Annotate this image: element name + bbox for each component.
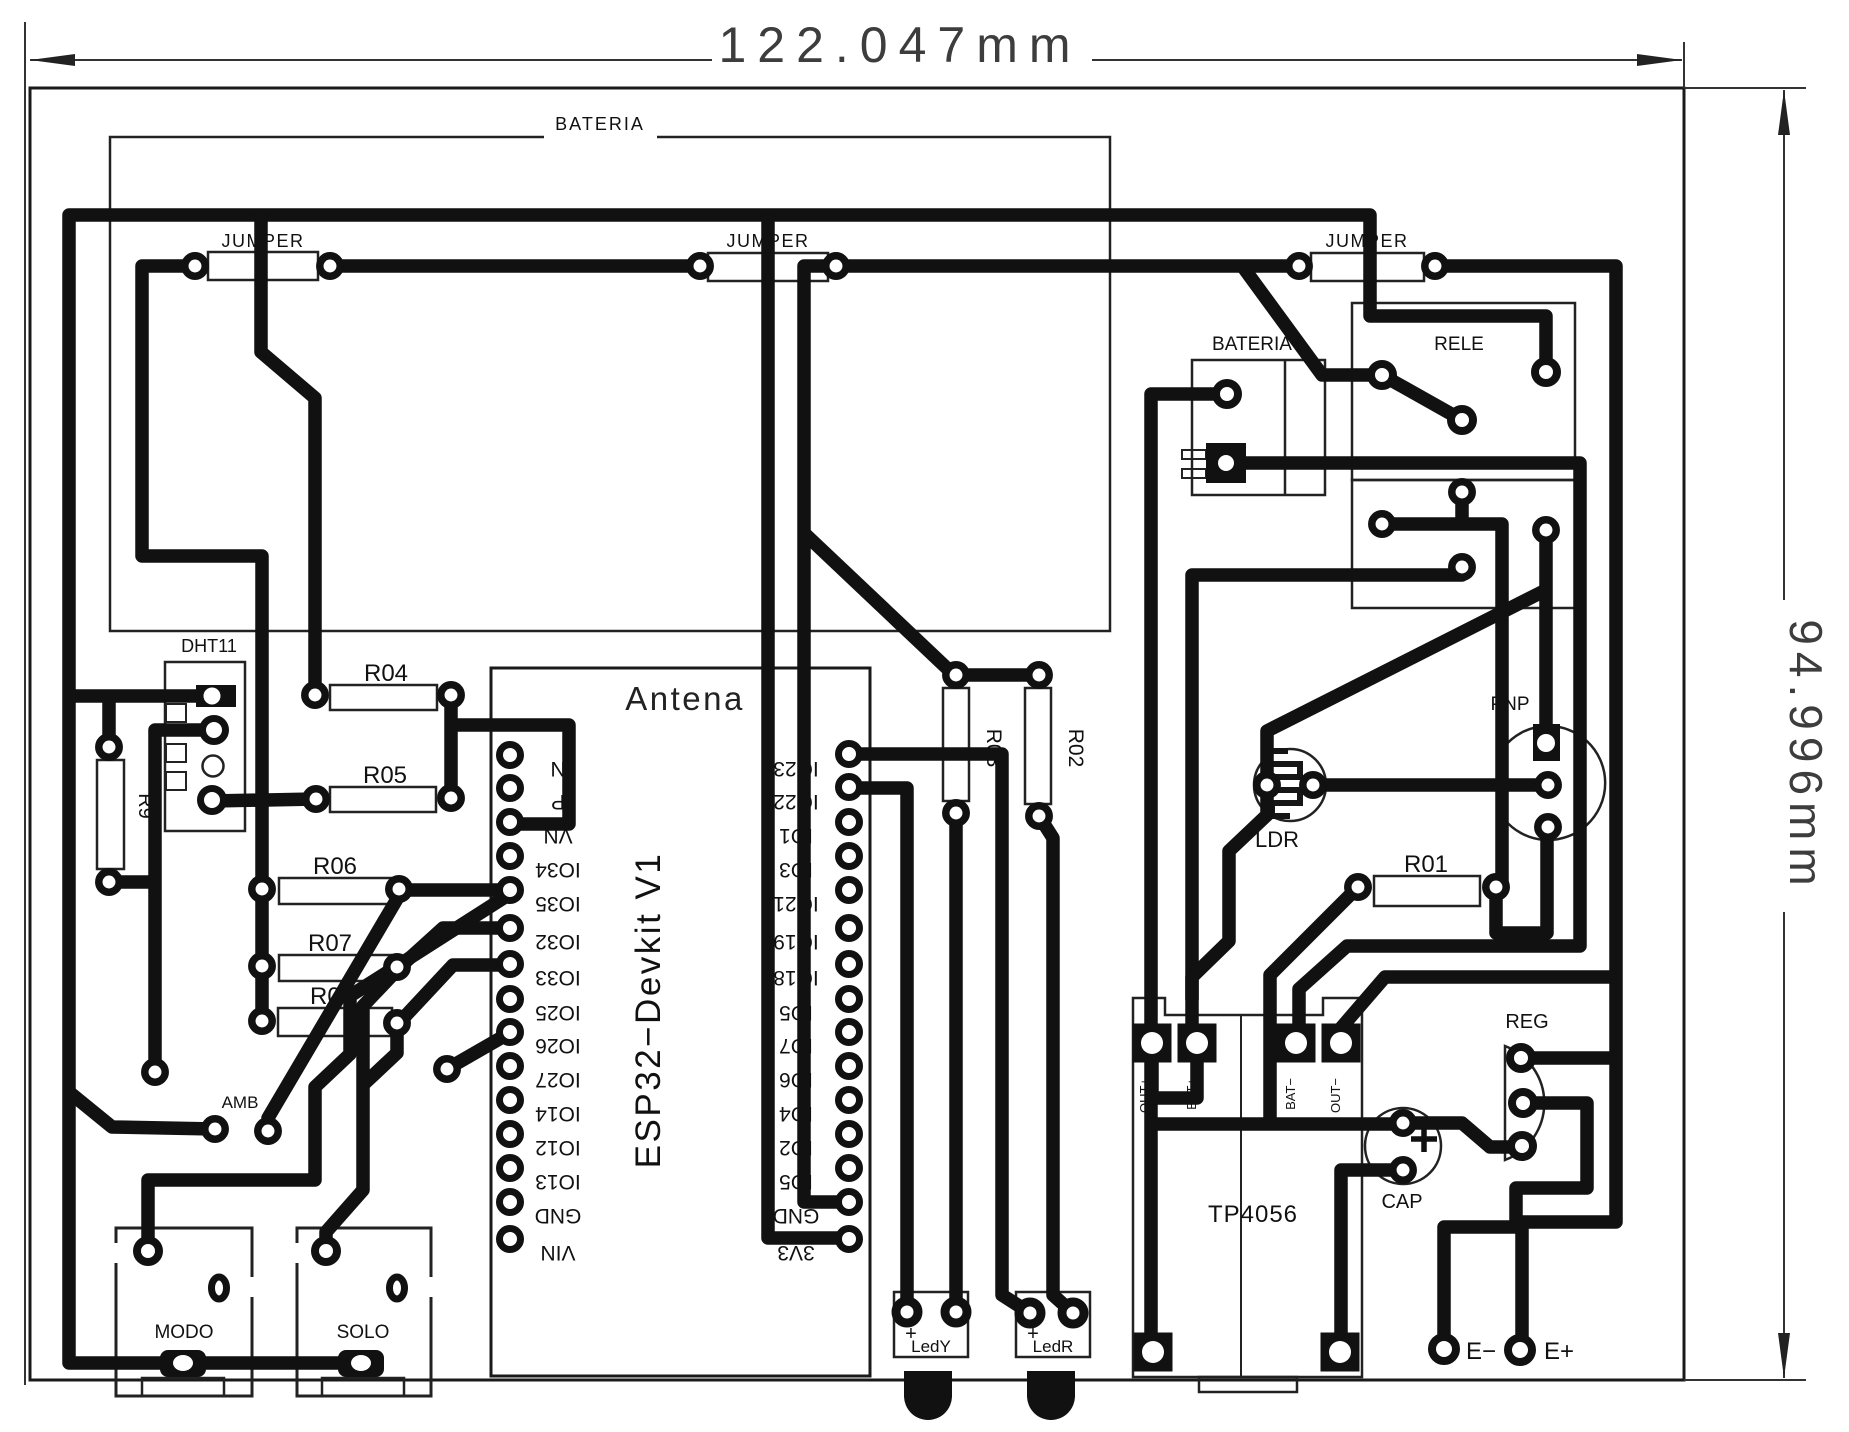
capacitor CAP body circle [1365, 1108, 1441, 1184]
RELE pad B [1451, 409, 1473, 431]
LED LedY body [894, 1292, 968, 1357]
transistor PNP body circle [1504, 726, 1605, 840]
wire main bus: bottom-left, left, top, to RELE pad C [69, 215, 1546, 1363]
svg-text:IO34: IO34 [535, 858, 581, 881]
svg-text:R06: R06 [313, 853, 357, 880]
resistor R07 body [279, 955, 391, 981]
svg-text:REG: REG [1505, 1011, 1548, 1033]
resistor R02 pad top [1029, 665, 1049, 685]
ESP32 right pin pad 14 [839, 1192, 860, 1213]
wire left bus diagonal to AMB left pad [69, 1092, 215, 1129]
ESP32 right pin pad 1 [839, 744, 860, 765]
wire R06 right pad diagonal to AMB right pad [268, 899, 397, 1131]
connector BATERIA (right) body [1192, 360, 1325, 495]
wire TP4056 OUT+/BAT+ U-link [1152, 1058, 1197, 1098]
wire BATERIA right pad to TP4056 OUT+ pad [1151, 394, 1227, 1352]
svg-text:AMB: AMB [222, 1093, 259, 1112]
ESP32 right pin pad 10 [839, 1056, 860, 1077]
svg-text:E+: E+ [1544, 1338, 1574, 1365]
svg-text:BATERIA: BATERIA [1212, 334, 1292, 355]
resistor R01 body [1374, 876, 1480, 906]
resistor R08 pad left [252, 1011, 272, 1031]
ESP32 left pin pad 2 [500, 778, 521, 799]
svg-text:122.047mm: 122.047mm [718, 17, 1081, 73]
svg-text:CAP: CAP [1381, 1191, 1422, 1213]
ESP32 left pin pad 3 [500, 812, 521, 833]
jumper J2 body [708, 253, 828, 281]
CAP plus sign [1411, 1126, 1437, 1152]
ESP32 right pin pad 8 [839, 989, 860, 1010]
SOLO top pad [315, 1240, 337, 1262]
svg-text:IO14: IO14 [535, 1102, 581, 1125]
wire CAP bottom pad to TP4056 bottom-right pad [1341, 1170, 1403, 1352]
ESP32 left pin pad 4 [500, 846, 521, 867]
BATERIA right pad [1216, 383, 1238, 405]
ESP32 left pin pad 13 [500, 1158, 521, 1179]
DHT11 index circle [203, 756, 224, 777]
jumper J2 pad 1 [690, 256, 710, 276]
svg-text:LDR: LDR [1255, 827, 1299, 852]
svg-text:R07: R07 [308, 930, 352, 957]
ESP32 left pin pad 10 [500, 1056, 521, 1077]
MODO oval pad [212, 1277, 227, 1299]
wire J1 right pad to J2 left pad [330, 259, 700, 273]
sensor DHT11 body [165, 662, 245, 831]
wire branch from GND vertical diagonal to R03 top pad [804, 533, 952, 673]
DHT11 pad 2 [203, 719, 226, 742]
LedY pad left [896, 1301, 918, 1323]
resistor R07 pad left [252, 956, 272, 976]
LedR pad left [1019, 1302, 1041, 1324]
PNP bottom pad [1538, 817, 1558, 837]
LedR pad right [1062, 1302, 1084, 1324]
RELE contact pad 3 [1452, 557, 1472, 577]
wire via pad diagonal to ESP32 IO26 [447, 1031, 513, 1069]
svg-text:LedY: LedY [911, 1337, 951, 1356]
jumper J1 pad 2 [320, 256, 340, 276]
resistor R03 pad top [946, 665, 966, 685]
dimension extension line right-top [1684, 87, 1806, 89]
jumper J3 pad 2 [1425, 256, 1445, 276]
wire REG middle pad to E- pad [1444, 1103, 1587, 1349]
svg-text:DHT11: DHT11 [181, 636, 237, 656]
svg-text:R01: R01 [1404, 851, 1448, 878]
RELE pad C [1535, 361, 1557, 383]
TP4056 pad OUT- [1322, 1024, 1361, 1063]
REG pad 1 [1510, 1047, 1532, 1069]
jumper J3 body [1311, 253, 1424, 281]
wire R04/R05 net wrap to ESP32 VN pin [451, 725, 569, 824]
module TP4056 outline [1133, 998, 1362, 1377]
button MODO body [116, 1228, 252, 1396]
svg-text:IO35: IO35 [535, 892, 581, 915]
dimension extension line top-right [1683, 42, 1685, 88]
svg-text:R05: R05 [363, 762, 407, 789]
resistor R01 pad right [1486, 877, 1506, 897]
wire stub to R9 top pad [102, 696, 116, 747]
pad E+ [1508, 1338, 1532, 1362]
relay RELE body [1352, 303, 1575, 480]
wire RELE contact stub [1455, 492, 1469, 524]
resistor R9 pad top [99, 737, 119, 757]
wire PNP bottom pad to R01 right pad [1496, 827, 1547, 933]
svg-text:IO19: IO19 [773, 930, 819, 953]
wire IO32 through R07 right pad to SOLO button [326, 928, 513, 1251]
TP4056 pad BAT+ [1178, 1024, 1217, 1063]
svg-text:IO27: IO27 [535, 1068, 581, 1091]
ESP32 right pin pad 2 [839, 777, 860, 798]
TP4056 bottom tab [1199, 1377, 1297, 1392]
RELE pad A [1371, 364, 1393, 386]
ESP32 left pin pad 9 [500, 1022, 521, 1043]
svg-text:IO32: IO32 [535, 930, 581, 953]
svg-text:IO26: IO26 [535, 1034, 581, 1057]
resistor R06 pad right [389, 879, 409, 899]
wire DHT11 pin3 to R05 left pad [212, 799, 316, 801]
jumper J2 pad 2 [826, 256, 846, 276]
svg-text:E−: E− [1466, 1338, 1496, 1365]
PNP top square pad [1533, 724, 1560, 761]
svg-text:IO23: IO23 [773, 757, 819, 780]
wire J3 right pad elbow down right side to E+ pad [1435, 266, 1616, 1350]
LedY dome [904, 1371, 952, 1420]
wire J2 right pad elbow down to ESP32 GND pad [804, 266, 849, 1202]
svg-text:TP4056: TP4056 [1208, 1201, 1298, 1228]
resistor R04 body [330, 685, 437, 710]
via pad to IO26 [437, 1059, 457, 1079]
wire R03 bottom pad to LedY right pad [949, 813, 963, 1312]
jumper J1 body [208, 252, 318, 280]
resistor R02 body [1025, 688, 1051, 804]
resistor R08 pad right [387, 1013, 407, 1033]
wire R02 bottom pad to LedR right pad [1039, 816, 1073, 1313]
svg-text:SOLO: SOLO [337, 1322, 390, 1343]
LDR body circle [1254, 749, 1326, 821]
ESP32 right pin pad 3 [839, 812, 860, 833]
resistor R05 pad left [306, 789, 326, 809]
jumper J3 pad 1 [1289, 256, 1309, 276]
svg-text:R02: R02 [1064, 729, 1087, 768]
resistor R08 body [278, 1008, 392, 1036]
svg-text:R04: R04 [364, 660, 408, 687]
wire bus branch diagonal to RELE pad A [1243, 267, 1382, 375]
wire IO35 diagonal down to MODO button [148, 892, 513, 1251]
resistor R07 pad right [387, 957, 407, 977]
right dimension line 94.996mm [1783, 90, 1785, 600]
wire ESP32 IO23 to LedR left pad [849, 754, 1030, 1313]
resistor R06 body [279, 878, 391, 904]
SOLO bottom tab [322, 1378, 404, 1396]
svg-text:MODO: MODO [154, 1322, 213, 1343]
wire R01 left pad down to TP4056 horizontal [1270, 887, 1358, 1124]
SOLO bottom pad [338, 1350, 384, 1377]
resistor R05 body [330, 787, 436, 812]
svg-text:RELE: RELE [1434, 334, 1484, 355]
REG pad 2 [1512, 1092, 1534, 1114]
ESP32 left pin pad 6 [500, 918, 521, 939]
via pad below R9 [145, 1062, 165, 1082]
TP4056 inner divider [1240, 1015, 1242, 1377]
LED LedR body [1016, 1292, 1090, 1357]
svg-text:IO21: IO21 [773, 892, 819, 915]
ESP32 left pin pad 1 [500, 745, 521, 766]
MODO top pad [137, 1240, 159, 1262]
ESP32 left pin pad 7 [500, 954, 521, 975]
svg-text:IO12: IO12 [535, 1136, 581, 1159]
SOLO oval pad [390, 1277, 405, 1299]
wire RELE contact pad to TP4056 BAT+ pad [1192, 567, 1462, 1043]
BATERIA right square pad [1206, 443, 1246, 483]
wire R08 right pad diagonal to ESP32 IO33 [397, 965, 513, 1025]
TP4056 pad OUT+ [1133, 1024, 1172, 1063]
svg-text:IO13: IO13 [535, 1170, 581, 1193]
svg-text:Antena: Antena [625, 680, 745, 717]
RELE contact pad 4 [1536, 520, 1556, 540]
RELE contact pad 2 [1452, 482, 1472, 502]
PNP middle pad [1538, 775, 1558, 795]
ESP32 right pin pad 4 [839, 846, 860, 867]
wire LDR left pad up diagonal to PNP-top vertical [1267, 590, 1546, 785]
wire R03 top pad to R02 top pad [956, 668, 1039, 682]
LDR pad left [1257, 775, 1277, 795]
resistor R05 pad right [441, 788, 461, 808]
ESP32 right pin pad 15 [839, 1229, 860, 1250]
resistor R06 pad left [252, 879, 272, 899]
BATERIA right connector tabs [1182, 450, 1206, 459]
wire ESP32 IO22 to LedY left pad [849, 788, 907, 1312]
module ESP32-Devkit V1 outline [491, 668, 870, 1376]
LDR pad right [1303, 775, 1323, 795]
wire CAP top pad to REG bottom pad [1403, 1123, 1522, 1147]
ESP32 right pin pad 6 [839, 918, 860, 939]
resistor R9 pad bottom [99, 872, 119, 892]
wire left bus to DHT11 pin1 [69, 689, 212, 703]
resistor R03 body [943, 688, 969, 801]
TP4056 pad BAT- [1277, 1024, 1316, 1063]
TP4056 bottom-right pad [1321, 1333, 1360, 1372]
ESP32 right pin pad 5 [839, 880, 860, 901]
wire TP4056 left column to CAP top pad horizontal [1152, 1117, 1403, 1131]
wire R08 right pad stub joining SOLO trace [365, 1033, 397, 1083]
jumper J1 pad 1 [185, 256, 205, 276]
DHT11 pad 3 [201, 789, 224, 812]
wire RELE pad A to pad B diagonal [1382, 375, 1462, 420]
wire top bus branch through J2 down to ESP32 3V3 pad [768, 215, 849, 1238]
ESP32 right pin pad 7 [839, 954, 860, 975]
wire jumper J1 left pad elbow down through R06/R07/R08 left pads [142, 266, 262, 1021]
BATERIA region box [110, 137, 1110, 631]
AMB pad left [205, 1119, 225, 1139]
LedY pad right [945, 1301, 967, 1323]
DHT11 pad 1 square [196, 685, 236, 707]
wire branch to REG top pad [1520, 1051, 1616, 1065]
top dimension line 122.047mm [30, 59, 712, 61]
resistor R9 body [97, 760, 124, 869]
dimension extension line right-bottom [1684, 1379, 1806, 1381]
CAP pad top [1393, 1113, 1413, 1133]
svg-text:94.996mm: 94.996mm [1780, 619, 1832, 892]
wire branch to TP4056 OUT- pad [1341, 977, 1616, 1043]
wire top bus branch through J1 to R04 left pad [261, 215, 315, 695]
relay lower contact box [1352, 480, 1575, 608]
pad E- [1432, 1337, 1456, 1361]
wire BATERIA square pad to TP4056 BAT- pad [1226, 463, 1580, 1043]
wire J2 right pad to J3 left pad [836, 259, 1299, 273]
RELE contact pad 1 [1372, 514, 1392, 534]
wire RELE contact pads to R01 right pad vertical [1382, 524, 1502, 887]
resistor R04 pad right [441, 685, 461, 705]
resistor R03 pad bottom [946, 803, 966, 823]
dimension extension line left [24, 22, 26, 1385]
ESP32 left pin pad 14 [500, 1192, 521, 1213]
button SOLO body [297, 1228, 431, 1396]
ESP32 left pin pad 5 [500, 880, 521, 901]
ESP32 right pin pad 11 [839, 1090, 860, 1111]
wire R9 bottom pad link [109, 875, 155, 889]
TP4056 bottom-left pad [1134, 1333, 1173, 1372]
MODO bottom pad [160, 1350, 206, 1377]
wire LDR right pad to PNP middle pad [1313, 778, 1548, 792]
LDR zigzag symbol [1270, 751, 1300, 816]
ESP32 left pin pad 8 [500, 989, 521, 1010]
wire DHT11 pin2 elbow to R9 bottom pad and via [155, 730, 215, 1072]
ESP32 left pin pad 12 [500, 1124, 521, 1145]
svg-text:IO33: IO33 [535, 966, 581, 989]
ESP32 right pin pad 12 [839, 1124, 860, 1145]
svg-text:IO22: IO22 [773, 790, 819, 813]
resistor R02 pad bottom [1029, 806, 1049, 826]
svg-text:BAT−: BAT− [1283, 1078, 1298, 1110]
svg-text:IO25: IO25 [535, 1001, 581, 1024]
svg-text:IO18: IO18 [773, 966, 819, 989]
svg-text:GND: GND [535, 1204, 582, 1227]
resistor R04 pad left [305, 685, 325, 705]
REG pad 3 [1511, 1135, 1533, 1157]
svg-text:VIN: VIN [540, 1241, 575, 1264]
ESP32 right pin pad 13 [839, 1158, 860, 1179]
svg-text:BATERIA: BATERIA [555, 114, 645, 134]
wire RELE pad to PNP top pad vertical [1539, 530, 1553, 742]
wire R04 right pad to R05 right pad [444, 695, 458, 798]
MODO bottom tab [142, 1378, 224, 1396]
ESP32 left pin pad 11 [500, 1090, 521, 1111]
wire LDR left pad down to BAT+ vertical [1192, 785, 1267, 1000]
CAP pad bottom [1393, 1160, 1413, 1180]
resistor R01 pad left [1348, 877, 1368, 897]
regulator REG body arc [1505, 1046, 1544, 1160]
svg-text:OUT−: OUT− [1328, 1078, 1343, 1113]
LedR dome [1027, 1371, 1075, 1420]
AMB pad right [258, 1121, 278, 1141]
ESP32 right pin pad 9 [839, 1022, 860, 1043]
svg-text:ESP32−Devkit V1: ESP32−Devkit V1 [629, 852, 668, 1169]
ESP32 left pin pad 15 [500, 1229, 521, 1250]
DHT11 pin tabs [166, 704, 186, 722]
wire R06 right pad to ESP32 IO35 [399, 883, 513, 897]
